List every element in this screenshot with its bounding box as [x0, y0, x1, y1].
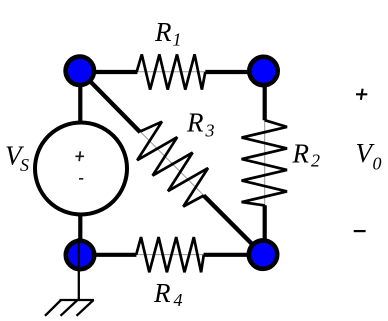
node N3 ground line overlay — [78, 241, 80, 269]
wire node1 to R3 (diagonal upper) — [80, 71, 140, 132]
resistor R3 centerline (thin) — [80, 71, 263, 255]
label R2 — [292, 139, 321, 171]
svg-text:0: 0 — [373, 153, 382, 173]
wire R4 to node4 — [204, 253, 263, 257]
svg-text:R: R — [186, 107, 204, 137]
output minus sign — [354, 230, 366, 232]
VS internal + — [75, 151, 84, 161]
label R4 — [153, 278, 183, 310]
wire node1 to R1 — [80, 70, 137, 74]
resistor R4 zigzag — [136, 237, 204, 272]
resistor R1 centerline (thin) — [80, 71, 263, 73]
VS internal - — [79, 178, 83, 180]
svg-text:R: R — [153, 278, 171, 308]
node N4 bottom-right — [249, 240, 277, 268]
svg-text:2: 2 — [311, 151, 320, 171]
label R3 — [186, 107, 215, 140]
svg-text:R: R — [154, 17, 172, 47]
node N2 top-right — [249, 57, 277, 85]
resistor R2 zigzag — [242, 120, 287, 205]
node N1 top-left — [66, 57, 94, 85]
wire R1 to node2 — [205, 70, 263, 74]
node N3 bottom-left — [66, 241, 94, 269]
output plus sign — [356, 89, 367, 100]
svg-text:S: S — [20, 155, 29, 175]
svg-text:3: 3 — [205, 121, 215, 141]
resistor R4 centerline (thin) — [80, 254, 263, 256]
svg-text:4: 4 — [174, 290, 183, 310]
wire source bottom to node3 — [78, 213, 82, 255]
svg-text:1: 1 — [173, 30, 182, 50]
ground wire (thin vertical) — [78, 238, 80, 300]
resistor R1 zigzag — [137, 54, 206, 89]
wire R3 to node4 (diagonal lower) — [204, 195, 263, 255]
label R1 — [154, 17, 182, 50]
wire node2 to R2 — [263, 71, 267, 120]
ground — [45, 300, 94, 316]
wire node1 to source top — [78, 71, 82, 124]
svg-text:R: R — [292, 139, 310, 169]
wire node3 to R4 — [80, 253, 136, 257]
label V0 — [356, 138, 382, 173]
resistor R2 centerline (thin) — [264, 71, 266, 255]
wire R2 to node4 — [263, 205, 267, 255]
voltage source VS circle — [35, 123, 127, 215]
label VS — [5, 141, 29, 176]
resistor R3 zigzag (diagonal) — [137, 122, 208, 207]
